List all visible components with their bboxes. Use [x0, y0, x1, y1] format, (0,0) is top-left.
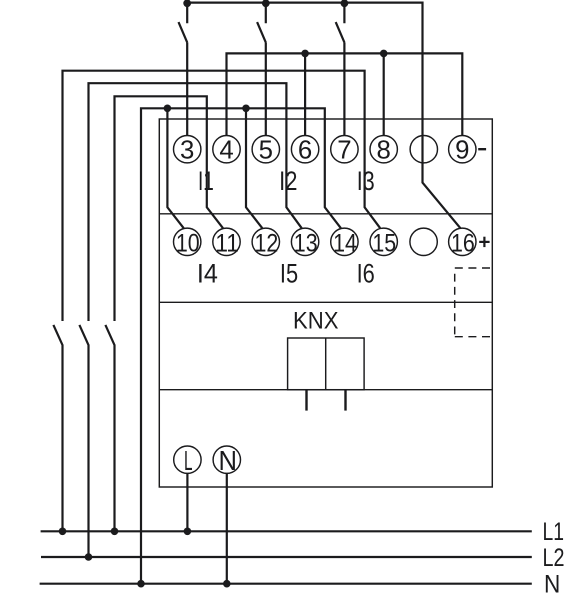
svg-text:I3: I3: [357, 166, 375, 196]
svg-text:N: N: [544, 570, 560, 598]
svg-text:L1: L1: [543, 518, 565, 546]
svg-text:9: 9: [455, 136, 469, 164]
svg-text:12: 12: [255, 229, 279, 257]
svg-text:13: 13: [294, 229, 318, 257]
svg-text:L2: L2: [543, 544, 565, 572]
svg-text:I2: I2: [279, 166, 297, 196]
svg-text:I1: I1: [198, 166, 214, 196]
svg-text:10: 10: [176, 229, 200, 257]
svg-text:I6: I6: [357, 259, 375, 289]
svg-text:15: 15: [372, 229, 396, 257]
svg-text:11: 11: [215, 229, 239, 257]
svg-text:4: 4: [219, 136, 233, 164]
svg-text:KNX: KNX: [293, 308, 339, 335]
svg-text:N: N: [218, 445, 237, 476]
svg-text:L: L: [184, 445, 193, 476]
svg-text:3: 3: [180, 136, 194, 164]
svg-text:8: 8: [377, 136, 391, 164]
svg-text:5: 5: [259, 136, 273, 164]
svg-text:I5: I5: [280, 259, 298, 289]
svg-text:16: 16: [451, 229, 475, 257]
svg-text:14: 14: [333, 229, 357, 257]
svg-text:6: 6: [298, 136, 312, 164]
svg-text:I4: I4: [197, 259, 218, 289]
svg-text:7: 7: [337, 136, 351, 164]
